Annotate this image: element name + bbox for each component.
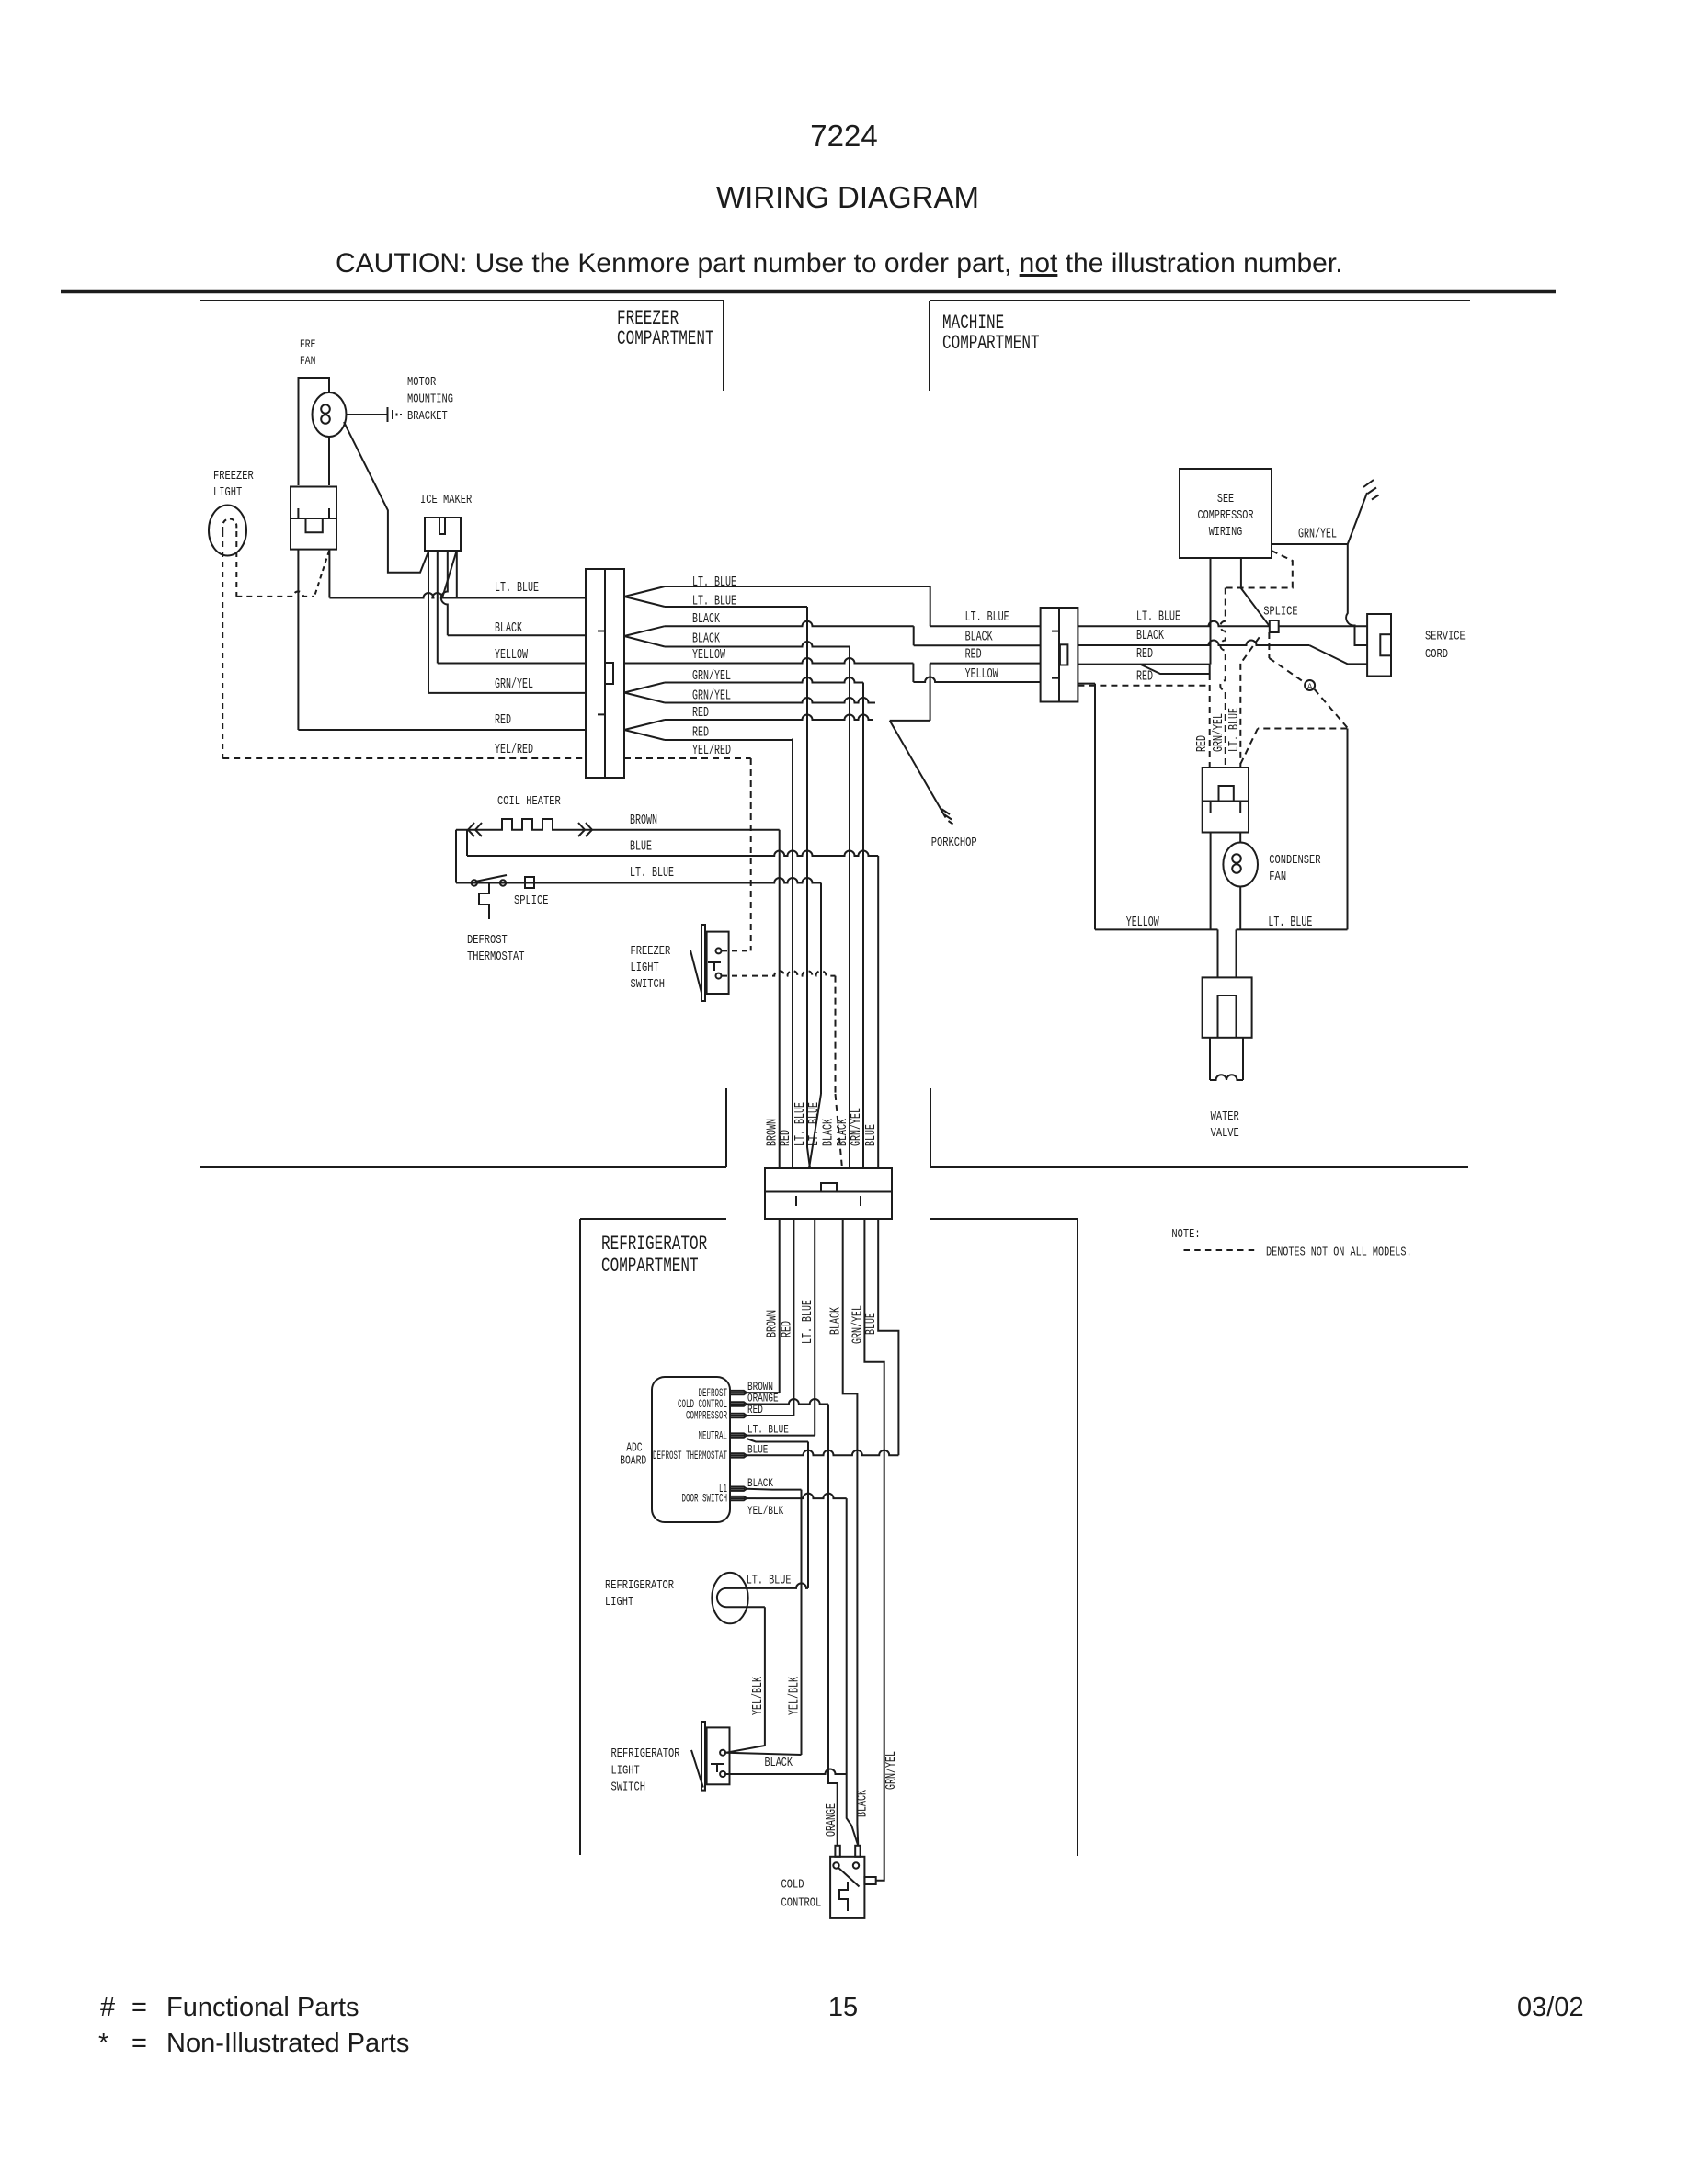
ADC board	[652, 1377, 730, 1522]
compressor pin 1 (solid to RED fork)	[1210, 558, 1212, 665]
svg-text:BLACK: BLACK	[1136, 628, 1164, 643]
svg-text:CONTROL: CONTROL	[781, 1895, 822, 1910]
svg-text:15: 15	[828, 1993, 858, 2022]
porkchop ground symbol	[941, 809, 950, 814]
condenser fan motor	[1223, 843, 1258, 887]
switch lever	[691, 1750, 703, 1788]
svg-text:MOTOR: MOTOR	[407, 375, 437, 390]
cold control box	[830, 1857, 864, 1918]
svg-text:LT. BLUE: LT. BLUE	[692, 574, 736, 590]
dashed diagonal relay to light circuit	[314, 551, 329, 597]
machine compartment top-left vertical	[929, 301, 930, 391]
svg-text:WIRING DIAGRAM: WIRING DIAGRAM	[716, 180, 979, 214]
L1 wire BLACK	[747, 1488, 802, 1491]
cold control terminal 2	[853, 1862, 859, 1868]
svg-text:RED: RED	[692, 705, 709, 721]
fan left lead down to RED row	[297, 550, 299, 730]
A balloon	[1305, 680, 1315, 690]
freezer light switch plate	[701, 925, 705, 1001]
freezer fan motor	[313, 392, 347, 437]
svg-text:#: #	[100, 1993, 115, 2022]
svg-text:LIGHT: LIGHT	[611, 1764, 640, 1779]
svg-text:YEL/RED: YEL/RED	[495, 742, 533, 757]
dashed row to relay diagonal	[236, 591, 314, 597]
freezer light bulb	[209, 506, 246, 556]
freezer light filament dashed	[222, 518, 236, 531]
switch BLACK row	[725, 1769, 847, 1775]
svg-text:LT. BLUE: LT. BLUE	[965, 609, 1009, 625]
YELLOW jog to machine row	[912, 664, 914, 683]
svg-text:BLUE: BLUE	[863, 1313, 879, 1335]
water valve connector	[1203, 977, 1252, 1037]
machine compartment bottom border	[930, 1166, 1468, 1168]
svg-text:GRN/YEL: GRN/YEL	[849, 1108, 864, 1146]
svg-text:LT. BLUE: LT. BLUE	[747, 1574, 792, 1588]
svg-text:YELLOW: YELLOW	[495, 647, 528, 663]
svg-text:BLACK: BLACK	[828, 1307, 844, 1335]
svg-text:LT. BLUE: LT. BLUE	[692, 594, 736, 609]
svg-text:Functional Parts: Functional Parts	[166, 1993, 359, 2022]
light top wire LT. BLUE	[733, 1583, 808, 1588]
ADC pin lug	[730, 1487, 747, 1489]
bottom loop YELLOW / LT. BLUE	[1095, 928, 1218, 930]
svg-text:FRE: FRE	[300, 337, 316, 351]
ice maker body	[425, 518, 461, 551]
ADC pin lug	[730, 1391, 747, 1393]
BLUE row	[467, 851, 878, 856]
vertical RED	[792, 739, 793, 1169]
light bottom wire YEL/BLK	[733, 1606, 765, 1608]
svg-text:03/02: 03/02	[1517, 1993, 1584, 2022]
ADC pin lug	[730, 1402, 747, 1404]
svg-text:LT. BLUE: LT. BLUE	[1226, 708, 1242, 752]
defrost thermostat row	[456, 878, 821, 883]
vertical LT. BLUE 2	[820, 883, 822, 1095]
ADC pin lug	[730, 1414, 747, 1416]
svg-text:GRN/YEL: GRN/YEL	[1298, 527, 1337, 542]
vertical LT. BLUE below	[814, 1219, 815, 1436]
svg-text:VALVE: VALVE	[1211, 1126, 1239, 1141]
svg-text:BLACK: BLACK	[495, 620, 522, 636]
right vertical of loop	[1347, 729, 1349, 930]
svg-text:*: *	[98, 2029, 108, 2058]
heater left chevrons	[468, 823, 474, 836]
svg-text:SPLICE: SPLICE	[1263, 605, 1298, 620]
RED row left	[298, 729, 586, 731]
svg-text:YEL/RED: YEL/RED	[692, 743, 731, 758]
relay right lead to LT.BLUE bus	[328, 550, 330, 598]
svg-text:7224: 7224	[810, 119, 877, 153]
YEL/RED dashed row left	[222, 757, 586, 759]
svg-text:NOTE:: NOTE:	[1171, 1227, 1200, 1242]
water valve feed	[1217, 929, 1219, 977]
DEFROST THERMOSTAT wire BLUE	[747, 1450, 898, 1455]
vertical YELLOW down to loop	[1094, 684, 1096, 930]
dashed vertical GRN/YEL	[1220, 588, 1226, 768]
svg-text:LIGHT: LIGHT	[631, 961, 659, 975]
ice maker pin 4	[456, 551, 458, 598]
svg-text:BOARD: BOARD	[620, 1455, 646, 1469]
ORANGE vertical down to cold control	[828, 1405, 838, 1846]
svg-text:DEFROST THERMOSTAT: DEFROST THERMOSTAT	[653, 1450, 727, 1462]
svg-text:WATER: WATER	[1211, 1109, 1240, 1124]
wire fork BLACK	[624, 626, 665, 636]
YELLOW row left	[438, 663, 586, 665]
svg-text:THERMOSTAT: THERMOSTAT	[467, 950, 525, 964]
svg-text:LT. BLUE: LT. BLUE	[495, 580, 539, 596]
BLACK step to machine row	[913, 626, 915, 645]
svg-text:BLACK: BLACK	[965, 630, 993, 645]
svg-text:BLACK: BLACK	[855, 1790, 871, 1817]
YELLOW row right	[624, 658, 913, 664]
svg-text:COMPARTMENT: COMPARTMENT	[601, 1255, 699, 1278]
switch terminal lower	[720, 1771, 725, 1777]
COLD CONTROL wire ORANGE	[747, 1399, 828, 1404]
refrigerator compartment top border left	[580, 1218, 726, 1220]
vertical BLUE	[877, 856, 879, 1168]
svg-text:BLACK: BLACK	[765, 1756, 793, 1770]
svg-text:BROWN: BROWN	[765, 1310, 781, 1337]
ADC pin lug	[730, 1496, 747, 1498]
fan motor frame	[299, 378, 330, 485]
svg-text:COMPARTMENT: COMPARTMENT	[617, 327, 714, 350]
RED branch down to porkchop	[930, 664, 931, 721]
compressor pin 2 diagonal to splice	[1241, 558, 1270, 626]
machine connector	[1041, 608, 1078, 702]
svg-text:GRN/YEL: GRN/YEL	[884, 1751, 899, 1790]
defrost thermostat zigzag	[479, 883, 489, 919]
header rule	[61, 290, 1556, 294]
svg-text:LT. BLUE: LT. BLUE	[800, 1300, 815, 1344]
splice square	[525, 877, 534, 888]
svg-text:BLUE: BLUE	[863, 1124, 879, 1146]
freezer connector	[586, 569, 624, 778]
BROWN row	[593, 829, 780, 831]
vertical RED below	[793, 1219, 794, 1416]
GRN/YEL down hook into service line	[1346, 544, 1367, 645]
svg-text:YEL/BLK: YEL/BLK	[747, 1504, 783, 1518]
svg-text:COMPRESSOR: COMPRESSOR	[686, 1410, 727, 1423]
GRN/YEL wire to ground	[1272, 543, 1348, 545]
svg-text:DENOTES NOT ON ALL MODELS.: DENOTES NOT ON ALL MODELS.	[1266, 1246, 1412, 1260]
svg-text:SPLICE: SPLICE	[514, 893, 549, 908]
vertical BLACK below	[843, 1219, 859, 1846]
svg-text:COMPRESSOR: COMPRESSOR	[1198, 508, 1254, 523]
svg-text:REFRIGERATOR: REFRIGERATOR	[611, 1746, 680, 1761]
BLACK row left	[448, 634, 586, 636]
vertical BLUE below	[878, 1219, 898, 1455]
refrigerator light bulb	[712, 1573, 747, 1623]
switch terminal lower	[716, 973, 722, 979]
GRN/YEL row left	[428, 692, 586, 694]
svg-text:SWITCH: SWITCH	[631, 977, 666, 992]
vertical BLACK dashed	[835, 976, 837, 1094]
DEFROST wire BROWN	[747, 1392, 780, 1393]
BLUE tap	[466, 830, 468, 856]
note dash sample	[1184, 1249, 1259, 1251]
LT.BLUE step to machine row	[930, 586, 931, 626]
svg-text:YELLOW: YELLOW	[692, 647, 725, 663]
svg-text:ICE MAKER: ICE MAKER	[420, 493, 473, 507]
svg-text:RED: RED	[495, 712, 511, 728]
fan motor coil	[321, 404, 330, 414]
vertical GRN/YEL below	[864, 1219, 884, 1881]
svg-text:RED: RED	[778, 1130, 793, 1146]
refrigerator compartment left border	[579, 1219, 581, 1855]
RED machine row	[930, 663, 1041, 665]
YEL/RED dashed row right	[624, 757, 751, 759]
motor mounting bracket symbol	[387, 407, 389, 422]
svg-text:RED: RED	[1194, 735, 1210, 752]
svg-text:ADC: ADC	[626, 1442, 642, 1456]
cold control terminal 1	[833, 1862, 838, 1868]
condenser fan leads	[1210, 833, 1212, 930]
svg-text:CORD: CORD	[1425, 647, 1448, 662]
svg-text:RED: RED	[1136, 669, 1153, 685]
freezer compartment top-right vertical	[723, 301, 724, 391]
dashed GRN/YEL routing from box	[1226, 551, 1293, 588]
svg-text:Non-Illustrated Parts: Non-Illustrated Parts	[166, 2029, 409, 2058]
svg-text:YEL/BLK: YEL/BLK	[787, 1677, 803, 1715]
ADC pin lug	[730, 1433, 747, 1435]
svg-text:FREEZER: FREEZER	[631, 944, 671, 959]
switch lever	[690, 950, 701, 993]
service cord plug	[1367, 614, 1391, 677]
svg-text:SWITCH: SWITCH	[611, 1780, 646, 1795]
dashed LT. BLUE vertical	[1240, 637, 1259, 664]
defrost thermostat blade	[475, 875, 507, 882]
svg-text:REFRIGERATOR: REFRIGERATOR	[601, 1233, 707, 1256]
vertical BROWN below	[779, 1219, 781, 1393]
svg-text:COMPARTMENT: COMPARTMENT	[942, 332, 1040, 355]
svg-text:DOOR SWITCH: DOOR SWITCH	[682, 1493, 728, 1506]
svg-text:LIGHT: LIGHT	[605, 1595, 633, 1610]
svg-text:BRACKET: BRACKET	[407, 409, 448, 424]
svg-text:GRN/YEL: GRN/YEL	[1211, 713, 1226, 752]
DOOR SWITCH wire YEL/BLK	[747, 1497, 756, 1499]
heater right chevrons	[578, 823, 585, 836]
freezer compartment bottom border	[200, 1166, 726, 1168]
svg-text:LT. BLUE: LT. BLUE	[1268, 915, 1312, 930]
NEUTRAL wire to refrigerator light	[747, 1439, 808, 1442]
svg-text:FAN: FAN	[300, 354, 315, 368]
ice maker pin 3	[441, 551, 448, 636]
svg-text:GRN/YEL: GRN/YEL	[692, 668, 731, 684]
svg-text:RED: RED	[692, 725, 709, 741]
dashed RED vertical to compressor connector	[1209, 674, 1211, 768]
switch terminal upper	[720, 1750, 725, 1756]
vertical GRN/YEL	[862, 683, 864, 1169]
svg-text:LT. BLUE: LT. BLUE	[1136, 609, 1180, 625]
YELLOW row exit down	[1078, 683, 1095, 685]
machine compartment top border	[930, 300, 1470, 301]
freezer light dashed lead down YEL/RED	[222, 531, 223, 758]
NEUTRAL wire LT. BLUE	[747, 1435, 815, 1437]
LT.BLUE bus	[329, 593, 586, 598]
svg-text:NEUTRAL: NEUTRAL	[699, 1429, 728, 1442]
BLACK row to service cord	[1078, 641, 1309, 646]
ice maker pin4 diagonal	[442, 551, 457, 598]
freezer light switch body	[707, 932, 729, 994]
svg-text:=: =	[131, 1993, 147, 2022]
cold control pin 2	[855, 1846, 860, 1857]
dashed wire upper terminal	[722, 950, 751, 951]
refrigerator compartment right border	[1077, 1219, 1078, 1856]
svg-text:BLACK: BLACK	[821, 1119, 837, 1146]
ADC pin lug	[730, 1453, 747, 1455]
fan relay box	[291, 487, 336, 550]
water valve coil	[1209, 1038, 1211, 1080]
refrigerator light switch plate	[701, 1722, 705, 1791]
dashed A path from splice	[1268, 632, 1270, 658]
svg-text:LIGHT: LIGHT	[213, 485, 242, 500]
svg-text:LT. BLUE: LT. BLUE	[806, 1102, 822, 1146]
heater left drop to thermostat row	[455, 830, 457, 883]
coil heater element	[456, 819, 593, 830]
ice maker pin 2	[437, 551, 439, 664]
freezer light dashed lead down to relay	[235, 531, 237, 597]
svg-text:MOUNTING: MOUNTING	[407, 392, 453, 407]
defrost thermostat contacts	[472, 880, 477, 885]
svg-text:RED: RED	[965, 647, 982, 663]
refrigerator light filament	[717, 1588, 733, 1607]
svg-text:FREEZER: FREEZER	[213, 469, 254, 483]
motor bracket diagonal wire to ice maker pin1	[344, 422, 428, 573]
dashed wire lower terminal with hops	[722, 971, 836, 975]
svg-text:A: A	[1307, 683, 1313, 692]
cold control right pin	[864, 1877, 875, 1884]
dashed drop to freezer light switch	[750, 758, 752, 950]
ground slashes	[1363, 480, 1374, 487]
RED solid row with fork end	[1078, 664, 1209, 665]
svg-text:RED: RED	[1136, 646, 1153, 662]
vertical LT. BLUE 1	[807, 607, 810, 1168]
svg-text:BROWN: BROWN	[630, 813, 657, 828]
switch terminal upper	[716, 948, 722, 953]
svg-text:CONDENSER: CONDENSER	[1269, 853, 1321, 868]
svg-text:SERVICE: SERVICE	[1425, 630, 1466, 644]
svg-text:FAN: FAN	[1269, 870, 1286, 884]
svg-text:=: =	[131, 2029, 147, 2058]
svg-text:ORANGE: ORANGE	[824, 1803, 839, 1837]
svg-text:PORKCHOP: PORKCHOP	[931, 836, 977, 850]
porkchop diagonal	[890, 721, 946, 818]
svg-text:YELLOW: YELLOW	[1126, 915, 1159, 930]
svg-text:YEL/BLK: YEL/BLK	[750, 1677, 766, 1715]
svg-text:COIL HEATER: COIL HEATER	[497, 794, 561, 809]
svg-text:BLACK: BLACK	[692, 631, 720, 647]
motor mounting bracket lead	[347, 414, 388, 415]
LT.BLUE row to splice/service cord	[1078, 621, 1269, 626]
svg-text:RED: RED	[779, 1321, 794, 1337]
wire fork LT. BLUE	[624, 586, 665, 597]
machine bottom-left vertical stub	[930, 1088, 931, 1167]
svg-text:YELLOW: YELLOW	[965, 666, 998, 682]
svg-text:GRN/YEL: GRN/YEL	[495, 677, 533, 692]
svg-text:BLUE: BLUE	[630, 839, 652, 855]
svg-text:LT. BLUE: LT. BLUE	[630, 865, 674, 881]
COMPRESSOR wire RED	[747, 1415, 793, 1416]
see compressor wiring box	[1180, 469, 1272, 558]
dashed back to LT.BLUE lead	[1258, 728, 1347, 730]
cold control blade	[838, 1867, 860, 1887]
svg-text:SEE: SEE	[1217, 492, 1234, 506]
svg-text:GRN/YEL: GRN/YEL	[692, 688, 731, 704]
vertical BROWN	[779, 830, 781, 1168]
svg-text:REFRIGERATOR: REFRIGERATOR	[605, 1578, 674, 1593]
ice maker pin 1	[428, 551, 429, 693]
freezer bottom-right vertical stub	[725, 1088, 727, 1167]
svg-text:COLD: COLD	[781, 1877, 804, 1892]
svg-text:WIRING: WIRING	[1209, 525, 1243, 540]
pass-through connector	[765, 1168, 892, 1192]
svg-text:BLACK: BLACK	[692, 611, 720, 627]
cold control zigzag	[839, 1882, 848, 1911]
svg-text:LT. BLUE: LT. BLUE	[747, 1423, 789, 1437]
cold control pin 1	[835, 1846, 839, 1857]
splice square 2	[1270, 620, 1279, 632]
freezer compartment top border	[200, 300, 724, 301]
compressor/condenser connector	[1203, 768, 1249, 833]
svg-text:BLACK: BLACK	[747, 1476, 773, 1490]
refrigerator compartment top border right	[930, 1218, 1078, 1220]
vertical BLACK solid	[849, 647, 850, 1169]
wire fork GRN/YEL	[624, 683, 665, 693]
wire fork RED	[624, 720, 665, 730]
svg-text:DEFROST: DEFROST	[467, 933, 508, 948]
svg-text:CAUTION: Use the Kenmore part: CAUTION: Use the Kenmore part number to …	[336, 248, 1343, 279]
RED dashed row	[1078, 685, 1209, 687]
refrigerator light switch body	[707, 1727, 730, 1784]
